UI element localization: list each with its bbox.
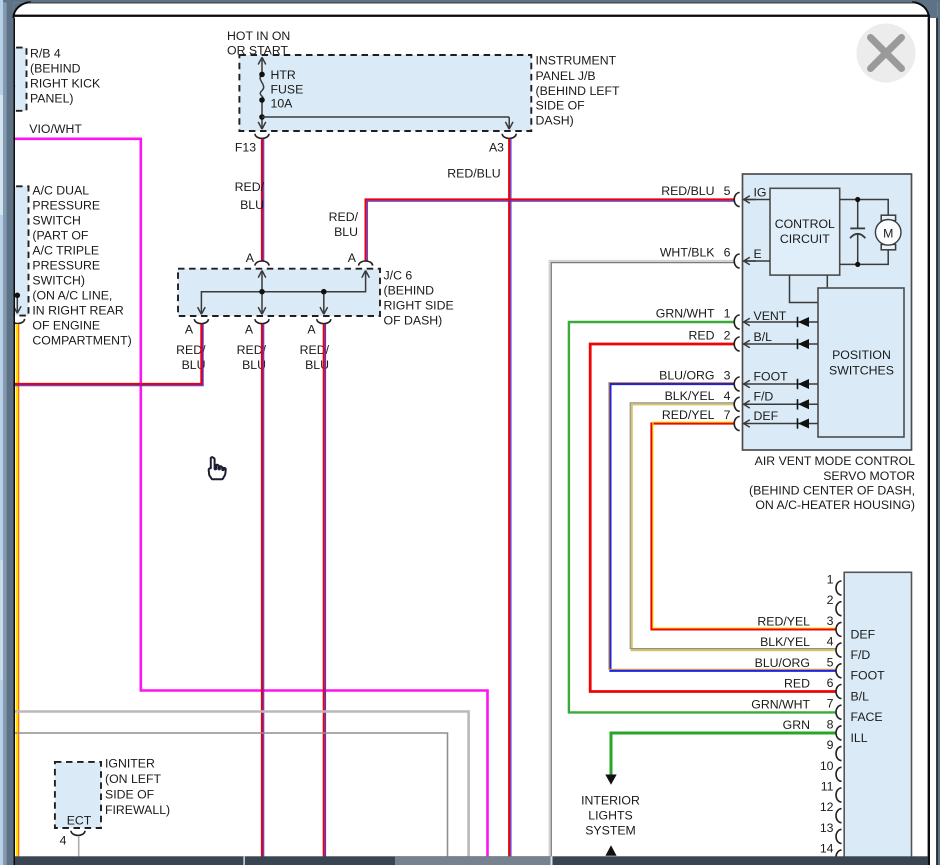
wire GRN connector ILL to interior lights — [611, 733, 836, 775]
connector wire labels — [751, 615, 810, 733]
svg-text:A: A — [246, 251, 255, 265]
fuse HTR wire (vertical in J/B) — [261, 58, 263, 130]
svg-text:RED/BLU: RED/BLU — [447, 167, 500, 181]
wire VIO/WHT — [13, 139, 488, 858]
svg-text:BLK/YEL: BLK/YEL — [665, 389, 715, 403]
svg-text:SWITCH): SWITCH) — [32, 274, 85, 288]
connector arc J/C6 bottom 1 — [194, 319, 208, 324]
svg-text:J/C 6: J/C 6 — [384, 269, 413, 283]
wire E pin to control circuit — [743, 260, 771, 262]
svg-text:RED: RED — [784, 677, 810, 691]
junction dot capacitor top — [855, 197, 860, 202]
svg-text:RIGHT KICK: RIGHT KICK — [30, 76, 101, 90]
label instrument panel J/B — [536, 54, 621, 128]
svg-text:WHT/BLK: WHT/BLK — [660, 246, 715, 260]
close button — [857, 24, 916, 83]
svg-text:SIDE OF: SIDE OF — [536, 99, 586, 113]
svg-text:BLU/ORG: BLU/ORG — [659, 369, 714, 383]
svg-text:A3: A3 — [489, 141, 504, 155]
junction connector J/C 6 box — [178, 269, 380, 316]
wire RED/YEL servo DEF to connector DEF — [652, 422, 837, 629]
wire control circuit to motor top — [840, 200, 889, 216]
capacitor C1 (polarized) — [850, 200, 865, 265]
svg-text:RED: RED — [689, 329, 715, 343]
slate frame right — [938, 0, 940, 865]
svg-text:14: 14 — [820, 842, 834, 856]
label RED/BLU (J/C6 out2) — [237, 343, 267, 372]
svg-text:(PART OF: (PART OF — [32, 229, 89, 243]
label A (J/C6 bottom 2) — [245, 323, 254, 337]
svg-text:ILL: ILL — [851, 731, 868, 745]
connector arcs pins 1-14 — [836, 581, 842, 864]
label J/C 6 — [384, 269, 454, 328]
svg-text:AIR VENT MODE CONTROL: AIR VENT MODE CONTROL — [755, 454, 915, 468]
svg-text:RED/: RED/ — [235, 180, 265, 194]
label B/L — [754, 330, 773, 344]
wire WHT/BLK servo E — [550, 261, 735, 858]
svg-text:SIDE OF: SIDE OF — [105, 787, 155, 801]
arrow up J/C6 pin A2 — [362, 271, 370, 278]
svg-text:A: A — [245, 323, 254, 337]
J/C6 internal bus — [201, 271, 365, 315]
svg-text:(BEHIND: (BEHIND — [30, 61, 81, 75]
svg-text:RED/BLU: RED/BLU — [661, 184, 714, 198]
label air vent mode control servo motor — [749, 454, 915, 512]
wire BLU/ORG servo FOOT to connector FOOT — [609, 383, 837, 671]
wire RED/BLU servo IG to J/C6 — [366, 200, 735, 262]
svg-text:13: 13 — [820, 821, 834, 835]
svg-text:A: A — [185, 323, 194, 337]
wire inside A/C switch — [13, 295, 17, 312]
svg-text:5: 5 — [827, 655, 834, 669]
connector arc J/C6 bottom 2 — [255, 319, 269, 324]
svg-text:(BEHIND CENTER OF DASH,: (BEHIND CENTER OF DASH, — [749, 484, 915, 498]
label VENT — [754, 309, 787, 323]
svg-text:GRN/WHT: GRN/WHT — [656, 307, 715, 321]
svg-text:PANEL): PANEL) — [30, 91, 74, 105]
svg-text:A/C TRIPLE: A/C TRIPLE — [32, 244, 99, 258]
svg-text:(ON A/C LINE,: (ON A/C LINE, — [32, 289, 112, 303]
svg-text:VENT: VENT — [754, 309, 787, 323]
label FOOT — [754, 370, 789, 384]
connector arc J/C6 top 2 — [359, 261, 373, 266]
wire RED/BLU F13 to J/C6 — [262, 139, 264, 262]
diode VENT — [798, 317, 810, 327]
svg-text:FOOT: FOOT — [754, 370, 789, 384]
relay block R/B 4 — [5, 48, 27, 111]
window top-right rounded corner — [912, 0, 938, 18]
slate frame top — [3, 0, 940, 2]
servo motor box — [743, 174, 912, 450]
svg-text:BLU: BLU — [240, 198, 264, 212]
label IGNITER — [105, 756, 170, 817]
label VIO/WHT — [29, 122, 82, 136]
svg-text:CIRCUIT: CIRCUIT — [780, 232, 830, 246]
label HTR FUSE 10A — [271, 68, 304, 111]
label A (J/C6 top left) — [246, 251, 255, 265]
svg-text:RED/: RED/ — [329, 210, 359, 224]
svg-text:B/L: B/L — [851, 689, 870, 703]
svg-text:RED/YEL: RED/YEL — [662, 408, 715, 422]
wire RED/BLU J/C6 out3 down — [324, 324, 326, 858]
svg-text:R/B 4: R/B 4 — [30, 46, 61, 60]
label DEF — [754, 409, 779, 423]
servo pin arrows (left-pointing chevrons) — [744, 196, 756, 428]
svg-text:ECT: ECT — [67, 814, 92, 828]
svg-text:HOT IN ON: HOT IN ON — [227, 29, 290, 43]
connector arcs servo pins — [734, 193, 739, 431]
arrow down A/C switch pin — [14, 306, 22, 313]
right thin black line — [936, 16, 938, 865]
outer light blue strip — [0, 0, 3, 865]
instrument panel J/B box — [239, 55, 531, 131]
svg-text:IN RIGHT REAR: IN RIGHT REAR — [32, 304, 123, 318]
window black border left — [13, 13, 15, 865]
svg-text:7: 7 — [827, 697, 834, 711]
diode DEF — [798, 418, 810, 428]
label 4 (igniter pin) — [60, 834, 67, 848]
arrow up from off-page (interior lights) — [605, 845, 616, 856]
arrow down J/C6 out 1 — [198, 307, 206, 314]
label RED/BLU (J/C6 out1) — [176, 343, 206, 372]
svg-text:SWITCHES: SWITCHES — [829, 363, 894, 377]
svg-text:FUSE: FUSE — [271, 82, 304, 96]
svg-text:2: 2 — [827, 593, 834, 607]
wire F/D row — [743, 403, 819, 405]
svg-text:HTR: HTR — [271, 68, 296, 82]
svg-text:DASH): DASH) — [536, 113, 574, 127]
wire RED/BLU J/C6 out2 down — [262, 324, 264, 858]
wire VENT row — [743, 321, 819, 323]
label RED/BLU (IG wire) — [329, 210, 359, 239]
svg-text:F13: F13 — [235, 141, 256, 155]
label A (J/C6 bottom 3) — [307, 323, 316, 337]
label A/C dual pressure switch — [32, 184, 131, 348]
wire igniter pigtail — [78, 837, 80, 859]
arrow down GRN to interior lights — [605, 775, 616, 785]
svg-text:PRESSURE: PRESSURE — [32, 199, 100, 213]
svg-text:6: 6 — [724, 246, 731, 260]
connector arc J/C6 top 1 — [255, 261, 269, 266]
svg-text:PRESSURE: PRESSURE — [32, 259, 100, 273]
wire control circuit to position switches (straight) — [826, 275, 828, 288]
label R/B 4 — [30, 46, 101, 105]
diode F/D — [798, 399, 810, 409]
wire control circuit to motor bottom — [840, 250, 889, 265]
wire GRN/WHT servo VENT to connector FACE — [569, 322, 837, 712]
label IG — [754, 186, 767, 200]
svg-text:(BEHIND LEFT: (BEHIND LEFT — [536, 84, 621, 98]
label RED/BLU (F13 wire) — [235, 180, 265, 212]
junction dot J/C6 b — [321, 289, 327, 295]
window top thin border — [29, 2, 914, 3]
svg-text:GRN/WHT: GRN/WHT — [751, 697, 810, 711]
svg-text:1: 1 — [827, 573, 834, 587]
diode B/L — [798, 339, 810, 349]
svg-text:1: 1 — [724, 307, 731, 321]
arrow up to HOT IN ON — [258, 57, 266, 64]
svg-text:12: 12 — [820, 800, 834, 814]
wire DEF row — [743, 423, 819, 425]
junction dot J/C6 a — [259, 289, 265, 295]
wire WHT/BLK branch outer (to left) — [13, 712, 469, 859]
label F/D — [754, 390, 774, 404]
svg-text:4: 4 — [827, 635, 834, 649]
servo wire color labels — [656, 184, 716, 422]
svg-text:SYSTEM: SYSTEM — [585, 824, 636, 838]
wire WHT/BLK branch inner (to left) — [13, 733, 448, 858]
arrow up J/C6 pin A1 — [258, 271, 266, 278]
svg-text:10: 10 — [820, 759, 834, 773]
svg-text:CONTROL: CONTROL — [775, 217, 835, 231]
svg-text:11: 11 — [821, 780, 834, 794]
svg-text:RIGHT SIDE: RIGHT SIDE — [384, 299, 454, 313]
svg-text:OF DASH): OF DASH) — [384, 314, 443, 328]
label RED/BLU (J/C6 out3) — [300, 343, 330, 372]
svg-text:FOOT: FOOT — [851, 669, 886, 683]
diode FOOT — [798, 379, 810, 389]
wire RED servo B/L to connector B/L — [590, 344, 836, 692]
label A (J/C6 bottom 1) — [185, 323, 194, 337]
svg-text:FACE: FACE — [851, 710, 883, 724]
wire J/B bus to A3 — [262, 117, 509, 129]
svg-text:4: 4 — [724, 389, 731, 403]
position switches box U2 — [818, 288, 904, 437]
svg-text:OF ENGINE: OF ENGINE — [32, 319, 100, 333]
svg-text:IGNITER: IGNITER — [105, 756, 155, 770]
svg-text:PANEL J/B: PANEL J/B — [536, 69, 596, 83]
svg-text:VIO/WHT: VIO/WHT — [29, 122, 82, 136]
svg-text:DEF: DEF — [754, 409, 779, 423]
label A (J/C6 top right) — [348, 251, 357, 265]
svg-text:ON A/C-HEATER HOUSING): ON A/C-HEATER HOUSING) — [755, 498, 915, 512]
svg-text:SERVO MOTOR: SERVO MOTOR — [823, 469, 915, 483]
svg-text:2: 2 — [724, 329, 731, 343]
svg-text:B/L: B/L — [754, 330, 773, 344]
arrow down J/C6 out 2 — [258, 307, 266, 314]
toolbar black line — [13, 15, 930, 17]
label ECT — [67, 814, 92, 828]
motor M1 — [875, 215, 901, 250]
label INTERIOR LIGHTS SYSTEM — [581, 794, 640, 838]
igniter box — [55, 762, 101, 828]
connector arc igniter pin 4 — [71, 831, 85, 836]
svg-text:GRN: GRN — [783, 718, 810, 732]
svg-text:A: A — [307, 323, 316, 337]
svg-text:M: M — [883, 227, 893, 241]
wire FOOT row — [743, 383, 819, 385]
wire BLK/YEL servo F/D to connector F/D — [630, 403, 836, 650]
svg-text:COMPARTMENT): COMPARTMENT) — [32, 334, 131, 348]
connector arc F13 — [255, 134, 269, 139]
slate frame left — [3, 0, 13, 865]
arrow down A3 — [505, 122, 513, 129]
svg-text:IG: IG — [754, 186, 767, 200]
svg-text:E: E — [754, 247, 762, 261]
label RED/BLU (A3 wire) — [447, 167, 500, 181]
wire YEL (A/C switch down) — [17, 324, 19, 858]
svg-text:BLU: BLU — [334, 225, 358, 239]
svg-text:3: 3 — [827, 614, 834, 628]
svg-text:9: 9 — [827, 738, 834, 752]
svg-text:6: 6 — [827, 676, 834, 690]
junction dot J/B bus — [259, 114, 265, 120]
junction dot capacitor bottom — [855, 262, 860, 267]
svg-text:POSITION: POSITION — [832, 348, 891, 362]
svg-text:F/D: F/D — [754, 390, 774, 404]
connector arc J/C6 bottom 3 — [317, 319, 331, 324]
svg-text:3: 3 — [724, 369, 731, 383]
junction dot A/C switch — [14, 293, 20, 299]
connector arc A3 — [502, 134, 516, 139]
window black border right — [928, 16, 930, 865]
svg-text:DEF: DEF — [851, 627, 876, 641]
svg-text:RED/YEL: RED/YEL — [757, 615, 810, 629]
svg-text:LIGHTS: LIGHTS — [588, 809, 632, 823]
label E — [754, 247, 762, 261]
svg-text:F/D: F/D — [851, 648, 871, 662]
wire control circuit to position switches (L) — [790, 275, 819, 302]
svg-text:7: 7 — [724, 408, 731, 422]
mouse cursor (hand pointer) — [209, 457, 226, 479]
svg-text:5: 5 — [724, 184, 731, 198]
connector box (14 pin) — [844, 572, 911, 865]
wire IG pin to control circuit — [743, 199, 771, 201]
svg-text:4: 4 — [60, 834, 67, 848]
wire RED/BLU A3 down — [509, 139, 511, 858]
svg-text:BLK/YEL: BLK/YEL — [760, 635, 810, 649]
wire B/L row — [743, 343, 819, 345]
svg-text:(ON LEFT: (ON LEFT — [105, 772, 162, 786]
svg-text:A/C DUAL: A/C DUAL — [32, 184, 89, 198]
svg-text:FIREWALL): FIREWALL) — [105, 803, 170, 817]
fuse HTR symbol — [259, 72, 265, 103]
control circuit box U1 — [770, 188, 840, 275]
svg-text:INTERIOR: INTERIOR — [581, 794, 640, 808]
label F13 — [235, 141, 256, 155]
servo pin numbers — [724, 184, 731, 422]
svg-text:(BEHIND: (BEHIND — [384, 284, 435, 298]
connector pin labels — [851, 627, 886, 745]
svg-text:8: 8 — [827, 717, 834, 731]
connector pin numbers 1-14 — [820, 573, 834, 856]
svg-text:INSTRUMENT: INSTRUMENT — [536, 54, 617, 68]
arrow down J/C6 out 3 — [320, 307, 328, 314]
connector arc A/C switch — [11, 319, 25, 324]
A/C dual pressure switch box — [5, 186, 29, 315]
svg-text:10A: 10A — [271, 97, 294, 111]
window top-left rounded corner — [13, 2, 31, 18]
label HOT IN ON OR START — [227, 29, 290, 57]
svg-text:A: A — [348, 251, 357, 265]
bottom scrollbar — [15, 856, 928, 865]
svg-text:BLU/ORG: BLU/ORG — [755, 656, 810, 670]
arrow down F13 — [258, 122, 266, 129]
wire RED/BLU J/C6 out1 to left — [13, 324, 203, 386]
svg-text:SWITCH: SWITCH — [32, 214, 81, 228]
label A3 — [489, 141, 504, 155]
